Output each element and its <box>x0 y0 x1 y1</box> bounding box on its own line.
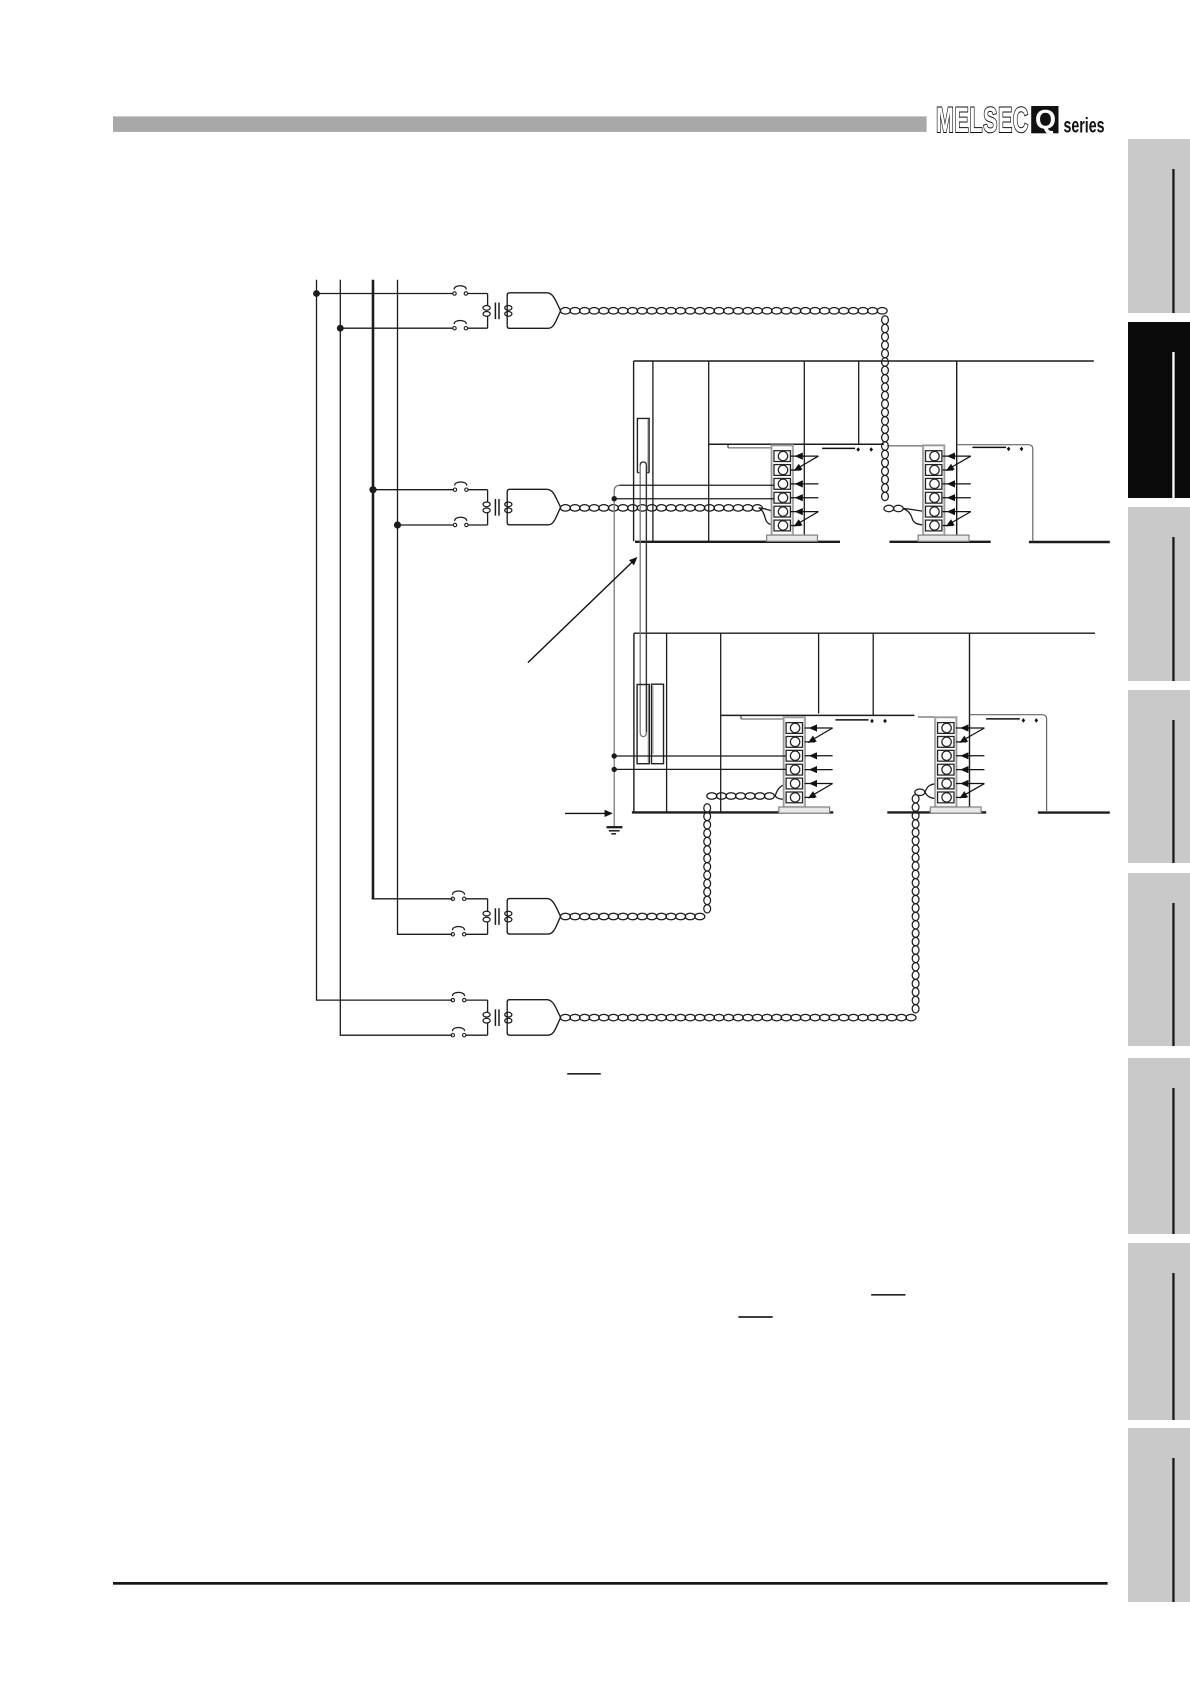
svg-text:series: series <box>1064 115 1105 138</box>
svg-text:Q: Q <box>1035 105 1056 135</box>
svg-text:MELSEC: MELSEC <box>936 100 1029 140</box>
